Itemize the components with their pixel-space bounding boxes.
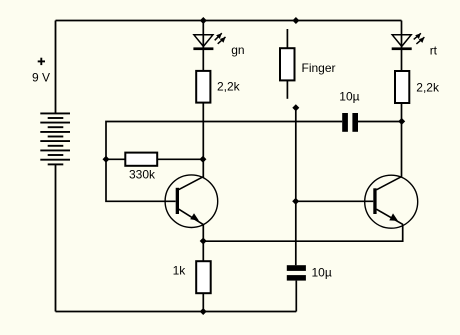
node finger lower contact [292,104,299,111]
wire emitter bus [203,224,402,241]
node 1k / ground rail [200,308,207,315]
LED rt light arrows [414,33,425,44]
resistor 2,2k left [196,71,210,103]
node 330k right / collector [199,156,206,163]
node emitters junction [200,238,207,245]
svg-text:9 V: 9 V [32,71,50,85]
node right base tee [292,198,299,205]
node top rail / finger contact [292,17,299,24]
svg-text:rt: rt [430,43,438,57]
wire left base vertical [106,159,176,201]
wire cap to right collector [358,121,402,123]
wire bottom cap to ground rail [295,281,297,312]
svg-text:330k: 330k [129,168,156,182]
wire left collector column [202,103,204,178]
capacitor 10u top [342,113,358,132]
resistor 330k [125,153,157,166]
LED rt (red) [392,35,412,50]
svg-text:2,2k: 2,2k [217,80,241,94]
wire right base [296,200,374,202]
node top rail / left LED [200,17,207,24]
LED gn (green) [193,35,213,50]
wire left emitter down [202,225,204,262]
wire battery top [55,21,57,114]
svg-text:Finger: Finger [302,61,336,75]
wire finger upper stub [286,29,288,48]
wire coupling (left base to cap) [106,122,342,160]
resistor 2,2k right [395,71,409,103]
svg-text:2,2k: 2,2k [416,80,440,94]
wire 330k left lead [106,158,125,160]
wire battery bottom to ground rail [55,164,57,311]
LED gn light arrows [215,33,226,44]
wire base column right (finger to base and cap) [295,108,297,265]
capacitor 10u bottom [287,265,306,280]
svg-text:10µ: 10µ [312,266,332,280]
wire bottom ground rail [56,311,297,313]
node right collector / cap [398,118,405,125]
battery plus sign [38,58,45,65]
svg-text:1k: 1k [173,263,187,277]
transistor Q2 [365,175,418,228]
svg-text:10µ: 10µ [339,90,359,104]
wire left column anode [202,21,204,72]
transistor Q1 [165,175,218,228]
battery B1 9V [40,113,70,164]
wire right collector column [401,103,403,177]
wire 330k right lead [157,158,203,160]
finger touch pad [280,48,295,80]
wire 1k to ground rail [202,293,204,311]
svg-text:gn: gn [231,43,244,57]
wire top rail +9V [56,20,402,22]
wire right column anode [401,21,403,72]
resistor 1k [196,261,211,293]
node 330k left [103,156,110,163]
wire finger lower stub [286,80,288,98]
